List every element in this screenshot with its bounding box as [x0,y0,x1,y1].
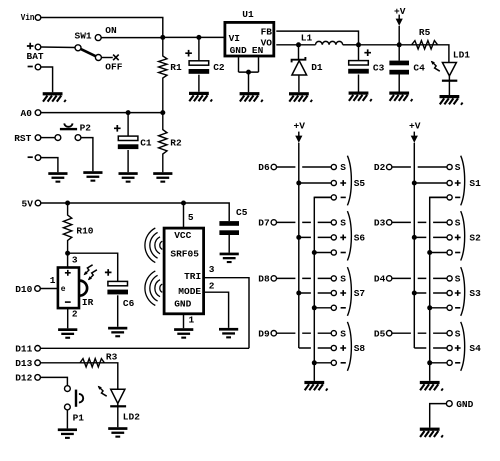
ground minus terminal [48,172,67,183]
svg-text:VI: VI [229,33,240,44]
terminal minus (RST area) [35,155,41,161]
svg-text:+V: +V [409,121,421,132]
resistor R5 [399,41,437,49]
pin label + of S1 [455,180,461,186]
wire A0 net [41,112,163,114]
junction U1 ground node [246,70,251,75]
ground LD2 [108,427,127,438]
pin + of S8 [331,345,336,350]
capacitor C2 [189,61,210,74]
capacitor C4 [389,61,409,75]
svg-text:BAT: BAT [27,51,44,62]
wire GND to S3 minus pin [430,307,447,309]
terminal BAT- [35,64,41,70]
svg-text:R5: R5 [419,27,431,38]
wire D1 to ground [298,75,300,92]
inductor L1 [316,41,343,44]
switch SW1 lever [81,49,96,56]
pin label + of S3 [455,290,461,296]
svg-text:S3: S3 [469,288,481,299]
junction GND rail at S2 [427,250,432,255]
pin S of S7 [331,276,336,281]
wire +V to S4 plus pin [414,347,447,349]
svg-text:C3: C3 [373,62,385,73]
terminal RST [35,135,41,141]
svg-text:D10: D10 [15,284,32,295]
terminal D13 [35,360,41,366]
wire D2 signal to S1 S pin [392,166,447,168]
svg-text:D6: D6 [258,162,270,173]
junction GND rail at S4 [427,360,432,365]
ground SRF05 [174,328,193,339]
junction R10 tap [65,201,70,206]
pin + of S6 [331,235,336,240]
wire D4 signal to S3 S pin [392,277,447,279]
svg-text:OFF: OFF [105,61,122,72]
wire 5V rail [41,203,229,221]
wire GND rail of bank [430,197,447,381]
wire GND to S5 minus pin [314,196,331,198]
wire D7 signal to S6 S pin [277,221,332,223]
supply +V arrow of bank S1.. [411,132,418,143]
svg-text:D11: D11 [15,344,32,355]
svg-text:R2: R2 [170,137,182,148]
wire D10 to IR pin1 [40,288,58,290]
svg-text:LD1: LD1 [453,50,470,61]
wire D5 signal to S4 S pin [392,332,447,334]
wire C1 stub [127,113,129,137]
capacitor C6 [107,281,128,294]
junction GND rail at S8 [312,360,317,365]
bracket of S1 [461,156,465,206]
wire BAT+ to SW1 pivot [41,46,75,49]
wire R3 to LD2 [104,363,117,390]
pin label - of S7 [341,307,346,309]
pushbutton P1 actuator bar [75,390,77,407]
terminal D2 [387,164,392,169]
pushbutton P2 left contact [55,135,61,141]
svg-text:IR: IR [82,297,94,308]
junction GND rail at S7 [312,305,317,310]
wire C6 to ground [117,295,119,327]
pin + of S5 [331,180,336,185]
capacitor C3 [348,61,369,74]
svg-text:D8: D8 [258,274,270,285]
bracket of S5 [347,156,351,206]
svg-text:L1: L1 [301,32,313,43]
junction Vin/ON/R1 node [160,35,165,40]
label - inside IR [65,301,71,303]
svg-text:S4: S4 [469,343,481,354]
transistor IR box [58,268,79,309]
terminal GND [446,401,452,407]
wire minus to ground [41,158,58,173]
bracket of S6 [347,211,351,260]
light arrow 1 into IR [84,265,93,276]
terminal A0 [35,110,41,116]
junction C2 tap [196,35,201,40]
pin - of S6 [331,250,336,255]
ground of bank [420,381,443,391]
pin label - of S2 [455,252,460,254]
wire +V to S2 plus pin [414,236,447,238]
ground D1 [289,92,312,102]
svg-text:R1: R1 [170,62,182,73]
svg-text:2: 2 [209,280,215,291]
terminal Vin [35,15,41,21]
svg-text:VCC: VCC [174,230,191,241]
svg-text:GND: GND [174,298,191,309]
wire D9 signal to S8 S pin [277,332,332,334]
svg-text:S: S [340,162,346,173]
label + of BAT [27,43,34,50]
pin label + of S7 [340,290,346,296]
wire R5 to LD1 [438,45,449,63]
LED LD2 cathode bar [110,405,126,407]
pin label - of S1 [455,196,460,198]
pin S of S4 [447,331,452,336]
resistor R2 [159,113,167,173]
svg-text:S: S [455,162,461,173]
svg-text:D13: D13 [15,358,32,369]
svg-text:S: S [340,328,346,339]
capacitor C5 [219,221,239,235]
svg-text:P2: P2 [80,122,92,133]
svg-text:D1: D1 [311,62,323,73]
junction R10/IR/C6 node [65,251,70,256]
junction C3 node [356,42,361,47]
switch SW1 pivot contact [75,45,81,51]
wire U1 EN stub [258,57,260,72]
pushbutton P1 top contact [65,386,71,392]
svg-text:S: S [455,218,461,229]
pin + of S2 [447,235,452,240]
svg-text:C2: C2 [213,62,225,73]
wire D11 net [41,347,250,349]
svg-text:S7: S7 [354,288,366,299]
pin - of S7 [331,305,336,310]
pin - of S4 [447,360,452,365]
pin label - of S6 [341,252,346,254]
wire D6 signal to S5 S pin [277,166,332,168]
wire GND rail of bank [314,197,331,381]
ground C3 [349,92,372,102]
pin S of S5 [331,164,336,169]
pin label + of S6 [340,235,346,241]
pin label + of S8 [340,345,346,351]
svg-text:Vin: Vin [21,12,35,23]
junction +V rail at S3 [412,291,417,296]
svg-text:R3: R3 [106,351,118,362]
svg-text:RST: RST [14,133,31,144]
ground of GND terminal [420,428,443,438]
junction C4 node [397,42,402,47]
wire C4 stub [398,45,400,61]
label - near RST [28,156,33,158]
wire +V to S8 plus pin [299,347,331,349]
wire GND terminal to ground [430,404,447,428]
wire SRF05 pin1 to ground [183,314,185,328]
wire C4 to ground [398,75,400,92]
wire BAT- to ground [41,67,53,92]
svg-text:R10: R10 [76,225,93,236]
wire LD2 to ground [117,403,119,427]
svg-text:C1: C1 [140,137,152,148]
ground C1 [119,172,138,183]
pin + of S7 [331,290,336,295]
wire IR pin3 stub [67,253,69,267]
svg-text:C5: C5 [236,207,248,218]
svg-text:D3: D3 [374,218,386,229]
svg-text:FB: FB [261,26,273,37]
resistor R3 [41,359,105,367]
junction GND rail at S6 [312,250,317,255]
wire GND to S4 minus pin [430,362,447,364]
pin label - of S8 [341,362,346,364]
capacitor C1 [118,136,139,149]
junction GND rail at S3 [427,305,432,310]
pushbutton P1 bottom contact [65,404,71,410]
resistor R1 [159,37,167,112]
wire C3 node to C4 node [359,44,400,46]
wire P2 to ground [81,138,93,172]
ground C4 [389,92,412,102]
ground P2 [83,171,102,182]
wire RST to P2 [41,137,55,139]
svg-text:2: 2 [72,309,78,320]
wire node to C6 [68,253,118,281]
pushbutton P2 right contact [75,135,81,141]
junction C1 tap [126,110,131,115]
ultrasonic waves lower [145,271,162,306]
pin label + of S2 [455,235,461,241]
junction +V rail at S7 [296,291,301,296]
wire U1 GND stub [238,57,240,72]
label + of C2 [185,50,192,57]
bracket of S3 [461,267,465,316]
svg-text:D12: D12 [15,373,32,384]
svg-text:D7: D7 [258,218,270,229]
svg-text:D9: D9 [258,328,270,339]
svg-text:S: S [340,218,346,229]
wire C2 to ground [198,75,200,92]
svg-text:1: 1 [50,275,56,286]
wire C1 to ground [127,150,129,172]
svg-text:TRI: TRI [184,271,201,282]
diode D1 triangle [292,61,307,75]
svg-text:S: S [455,274,461,285]
wire D12 to P1 [41,377,68,385]
svg-text:5V: 5V [22,198,34,209]
wire ON contact to Vin rail [101,37,163,39]
svg-text:D2: D2 [374,162,386,173]
wire SRF05 pin5 stub [183,203,185,228]
label + inside IR [65,270,71,276]
pushbutton P1 actuator cup [79,394,83,403]
pin - of S8 [331,360,336,365]
wire D1 stub [298,45,300,60]
wire +V to S3 plus pin [414,292,447,294]
supply +V arrow of bank S5.. [295,132,302,143]
left servo bank group [258,121,365,391]
svg-text:1: 1 [189,314,195,325]
pin - of S5 [331,195,336,200]
pin - of S2 [447,250,452,255]
svg-text:S: S [455,328,461,339]
pin label - of S5 [341,196,346,198]
svg-text:MODE: MODE [178,286,201,297]
switch SW1 OFF contact [95,55,101,61]
junction SRF05 VCC tap [181,201,186,206]
ground R2 [153,172,172,183]
bracket of S2 [461,211,465,260]
pin + of S1 [447,180,452,185]
svg-text:S: S [340,274,346,285]
wire GND to S8 minus pin [314,362,331,364]
pin + of S3 [447,290,452,295]
ground MODE [219,328,238,339]
svg-text:U1: U1 [242,9,254,20]
svg-text:e: e [61,285,66,294]
terminal D6 [271,164,276,169]
wire C2 stub [198,37,200,60]
svg-text:S2: S2 [469,233,481,244]
wire C3 to ground [358,75,360,92]
junction R1/R2 divider node [160,110,165,115]
svg-text:SW1: SW1 [75,30,92,41]
pin label - of S4 [455,362,460,364]
LED LD1 cathode bar [442,80,457,82]
terminal D4 [387,276,392,281]
svg-text:GND: GND [230,45,247,56]
ground C6 [108,327,127,338]
svg-text:S6: S6 [354,233,366,244]
ground LD1 [440,95,463,105]
svg-text:C4: C4 [413,62,425,73]
svg-text:C6: C6 [123,298,135,309]
ground C2 [189,92,212,102]
svg-text:S8: S8 [354,343,366,354]
wire D8 signal to S7 S pin [277,277,332,279]
pin - of S1 [447,195,452,200]
wire C5 to ground [228,235,230,253]
wire +V rail of bank [298,143,300,348]
supply +V arrow top [396,15,403,26]
right servo bank group [374,121,481,391]
label + of C1 [114,125,121,132]
wire +V to S6 plus pin [299,236,331,238]
svg-text:S5: S5 [354,178,366,189]
switch SW1 ON contact [95,35,101,41]
module SRF05 box [164,228,204,314]
svg-text:5: 5 [188,212,194,223]
LED LD1 triangle [442,63,456,76]
diode D1 cathode bar [292,57,306,62]
label + of C3 [364,49,371,56]
wire +V to S7 plus pin [299,292,331,294]
wire U1 FB feedback [276,31,358,45]
wire GND to S1 minus pin [430,196,447,198]
terminal D8 [271,276,276,281]
arrow of LED LD2 [98,386,107,397]
bracket of S8 [347,322,351,371]
ground of bank [304,381,327,391]
label + of C6 [105,269,112,276]
terminal D3 [387,220,392,225]
label - of BAT [28,66,33,68]
junction +V rail at S2 [412,235,417,240]
terminal BAT+ [35,44,41,50]
no-connect cross at OFF [113,55,119,61]
ground C5 [220,253,239,264]
wire D3 signal to S2 S pin [392,221,447,223]
wire node to U1 VI [163,36,224,38]
wire +V to node [398,26,400,45]
wire +V to S5 plus pin [299,182,331,184]
wire IR pin2 to ground [67,308,69,328]
wire P1 to ground [66,410,68,429]
pin S of S3 [447,276,452,281]
ground BAT [43,92,66,102]
wire OFF contact stub [102,57,113,59]
wire +V to S1 plus pin [414,182,447,184]
wire GND-EN join [239,71,259,73]
wire GND to S2 minus pin [430,252,447,254]
pin S of S1 [447,164,452,169]
wire Vin to R1 top [41,18,163,38]
terminal D7 [271,220,276,225]
svg-text:D5: D5 [374,328,386,339]
junction +V rail at S6 [296,235,301,240]
resistor R10 [63,203,71,253]
IR lens bump [80,281,88,296]
terminal D11 [35,346,41,352]
wire U1 node to ground [248,72,250,92]
wire +V rail of bank [413,143,415,348]
wire LD1 to ground [448,76,450,95]
svg-text:+V: +V [294,121,306,132]
ground IR [58,328,77,339]
svg-text:3: 3 [72,254,78,265]
svg-text:GND: GND [456,399,473,410]
pin label - of S3 [455,307,460,309]
LED LD2 triangle [111,389,125,403]
wire L1 to C3 node [343,44,359,46]
pin + of S4 [447,345,452,350]
terminal D5 [387,331,392,336]
pin label + of S5 [340,180,346,186]
ground U1 [240,92,263,102]
wire TRI to D11 riser [204,278,249,349]
ground P1 [58,428,77,439]
op-amp U1 box [225,22,274,56]
wire MODE to ground [204,292,229,328]
ultrasonic waves upper [145,228,162,263]
light arrow 2 into IR [88,270,97,281]
pin S of S6 [331,220,336,225]
junction D1 tap [296,42,301,47]
wire GND to S6 minus pin [314,252,331,254]
svg-text:S1: S1 [469,178,481,189]
terminal D9 [271,331,276,336]
junction +V rail at S1 [412,181,417,186]
svg-text:LD2: LD2 [123,411,140,422]
pin S of S2 [447,220,452,225]
bracket of S4 [461,322,465,371]
pin - of S3 [447,305,452,310]
terminal D10 [35,286,41,292]
pin S of S8 [331,331,336,336]
